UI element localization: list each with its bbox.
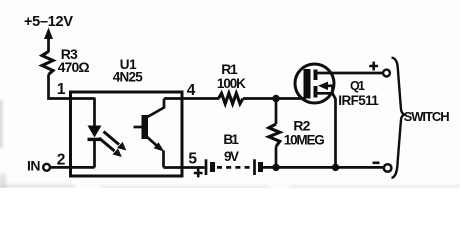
svg-text:4: 4 [187, 82, 196, 99]
svg-text:+5–12V: +5–12V [24, 14, 73, 30]
svg-text:B1: B1 [223, 132, 239, 147]
svg-text:470Ω: 470Ω [58, 59, 90, 75]
svg-text:Q1: Q1 [350, 79, 365, 93]
svg-text:SWITCH: SWITCH [404, 109, 450, 124]
svg-text:IN: IN [27, 157, 41, 173]
svg-text:5: 5 [188, 151, 197, 168]
svg-text:1: 1 [57, 81, 66, 98]
svg-text:9V: 9V [224, 149, 239, 164]
svg-text:R2: R2 [293, 118, 310, 134]
svg-text:2: 2 [57, 151, 66, 168]
svg-text:10MEG: 10MEG [284, 132, 325, 147]
svg-text:4N25: 4N25 [113, 69, 143, 84]
svg-text:100K: 100K [217, 76, 246, 91]
svg-text:IRF511: IRF511 [338, 93, 379, 108]
svg-text:R1: R1 [221, 61, 238, 77]
